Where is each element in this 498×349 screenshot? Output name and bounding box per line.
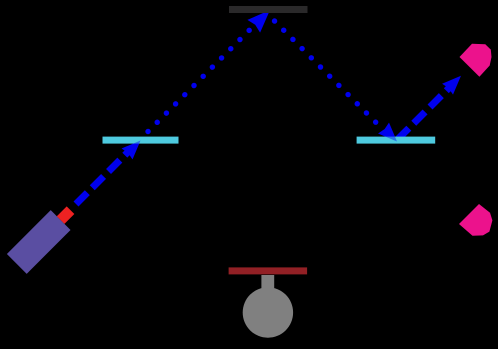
detector D1 top right [460,44,492,77]
mirror M2 bottom (dark red) [229,267,308,274]
laser [7,200,81,274]
pendulum mass [243,287,293,337]
beamsplitter BS1 left [103,137,179,144]
arrowhead at BS2 [378,123,397,142]
wire: dotted beam BS1 to top mirror [148,28,252,132]
wire: dashed beam BS2 to detector D1 [398,88,450,140]
arrowhead tip showing through BS1 (translucent) [122,141,141,160]
arrowhead at BS1 [122,141,141,160]
laser body [7,210,71,274]
arrowhead at detector D1 [442,76,461,95]
laser aperture (red) [57,206,75,224]
wire: dashed beam laser to beamsplitter BS1 [76,150,130,204]
detector D2 mid right [459,204,492,236]
beamsplitter BS2 right [357,137,436,144]
pendulum stem [261,275,274,295]
arrowhead tip showing through BS2 (translucent) [378,123,397,142]
wire: dotted beam top mirror to BS2 [275,21,382,128]
arrowhead at top mirror [247,10,270,33]
mirror M1 top [229,6,308,13]
